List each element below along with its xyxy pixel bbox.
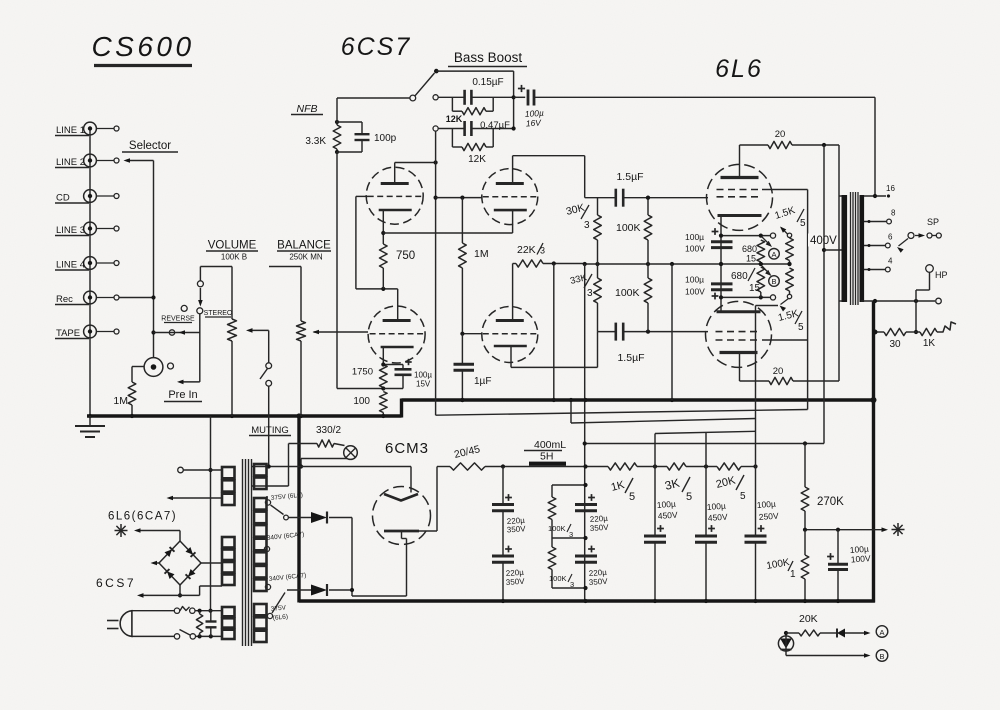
svg-text:HP: HP	[935, 270, 948, 280]
wire secondary bottom	[861, 298, 941, 304]
svg-text:B: B	[879, 652, 884, 661]
svg-text:400mL: 400mL	[534, 439, 566, 451]
svg-text:450V: 450V	[707, 512, 728, 523]
svg-text:15V: 15V	[416, 380, 431, 389]
potentiometer BALANCE 250K	[297, 267, 306, 417]
wire 6CM3 cathode to rail	[419, 467, 437, 532]
svg-text:STEREO: STEREO	[204, 310, 233, 317]
resistor 750 (V1a cathode)	[380, 244, 416, 289]
input jack LINE 3	[55, 222, 119, 236]
svg-text:100V: 100V	[685, 287, 705, 297]
wire cap to grid top	[623, 196, 708, 200]
power transformer right winding 3	[254, 604, 267, 642]
wire 6L6U plate lead	[739, 145, 741, 178]
node mid dots	[719, 262, 763, 266]
svg-text:100: 100	[353, 396, 370, 407]
wire screens vertical	[762, 190, 808, 410]
label 6CS7 heater	[96, 576, 136, 590]
wire bias row lower	[719, 295, 776, 300]
power transformer left winding 1	[222, 467, 235, 505]
svg-text:3: 3	[584, 220, 590, 231]
wire NFB tap vertical	[874, 97, 876, 196]
bus jog vertical	[400, 399, 403, 418]
wire tap down to bus	[552, 264, 556, 403]
diode circled (bias rectifier)	[778, 631, 793, 656]
label 400V	[808, 234, 841, 248]
wire volume box top	[200, 266, 232, 268]
resistor 1K/5	[608, 463, 667, 503]
resistor 20K bias	[786, 630, 834, 636]
svg-text:6: 6	[888, 233, 893, 242]
wire V2b plate lead	[512, 264, 514, 321]
node top coupling line	[585, 197, 616, 199]
wire feed line screens	[436, 410, 808, 416]
svg-text:250K MN: 250K MN	[289, 253, 323, 262]
star output node	[892, 523, 905, 536]
resistor 270K	[801, 444, 844, 530]
wire cathode coupling line	[383, 232, 512, 234]
svg-text:A: A	[771, 250, 776, 259]
svg-text:100K: 100K	[616, 222, 641, 234]
svg-text:100µ: 100µ	[656, 499, 676, 510]
svg-text:4: 4	[888, 257, 893, 266]
output transformer primary winding	[842, 195, 848, 302]
resistor 1750 (V1b cathode)	[352, 365, 387, 391]
wire mid to bus x672	[671, 264, 673, 400]
capacitor 0.15uF box	[438, 77, 513, 111]
svg-text:100µ: 100µ	[685, 232, 704, 242]
wire bias line B	[786, 653, 871, 658]
tap 340V upper	[264, 531, 304, 552]
wire jack to 1M	[132, 367, 144, 383]
switch SP	[897, 233, 941, 253]
wire center tap	[824, 249, 842, 251]
resistor 20K/5	[715, 463, 758, 502]
wiper arrow upper	[762, 237, 772, 247]
capacitor 0.47uF box	[438, 120, 515, 147]
wire B+ feed vertical	[584, 264, 586, 601]
svg-text:250V: 250V	[758, 511, 779, 522]
svg-text:6L6: 6L6	[715, 55, 763, 83]
wire bias pot stub	[756, 305, 779, 307]
svg-text:LINE 3: LINE 3	[56, 225, 85, 236]
wire mains bottom	[132, 634, 180, 639]
svg-text:1750: 1750	[352, 367, 373, 378]
wire V1b cathode lead	[382, 347, 384, 365]
wire V2a cathode lead	[512, 210, 514, 233]
potentiometer VOLUME 100K	[228, 267, 237, 417]
resistor 100K upper	[616, 196, 652, 264]
svg-text:SP: SP	[927, 217, 939, 227]
ground bus right (thick)	[402, 398, 875, 401]
svg-text:1: 1	[790, 569, 796, 580]
capacitor 100uF 450V D	[695, 433, 728, 602]
svg-text:22K: 22K	[517, 244, 536, 256]
contact heater top	[178, 467, 222, 473]
node tape/selector junction	[151, 330, 155, 334]
label Bass Boost	[448, 50, 527, 67]
wire bridge bottom	[178, 585, 182, 598]
wire B+ rail	[501, 464, 608, 468]
wire mains feed vertical	[208, 416, 212, 613]
svg-text:5: 5	[740, 491, 746, 502]
wire V1a plate lead	[395, 160, 438, 183]
diode rectifier lower	[287, 584, 352, 596]
svg-text:NFB: NFB	[297, 103, 318, 115]
resistor 1M (phono load)	[113, 382, 135, 416]
tube V2b 6CS7 triode	[482, 307, 538, 363]
output transformer secondary winding	[860, 195, 865, 302]
terminal B	[876, 650, 888, 662]
bridge rectifier	[159, 541, 201, 585]
input jack TAPE	[55, 325, 119, 339]
svg-text:5: 5	[686, 491, 692, 503]
mains plug	[107, 611, 132, 637]
svg-text:680: 680	[742, 244, 757, 254]
svg-text:100V: 100V	[685, 244, 705, 254]
capacitor 100uF 450V C	[644, 434, 678, 602]
wire V1a grid return	[356, 196, 398, 291]
resistor 20 (upper)	[740, 129, 840, 149]
bus vertical left (thick)	[296, 413, 301, 602]
resistor 680/15 upper	[742, 240, 765, 264]
power transformer core	[243, 459, 252, 646]
svg-text:5: 5	[800, 218, 806, 229]
ground symbol	[75, 416, 105, 437]
wire 400V vertical	[822, 145, 826, 444]
node bus crossings	[460, 398, 674, 402]
resistor 30 (to bus)	[873, 328, 921, 350]
wire star arrow	[134, 528, 180, 541]
wire V2b grid line	[460, 332, 482, 336]
svg-text:BALANCE: BALANCE	[277, 240, 331, 252]
label NFB	[291, 103, 323, 115]
resistor 12K upper	[446, 108, 493, 124]
capacitor 100p	[337, 122, 397, 152]
label 20K	[799, 613, 818, 625]
capacitor 220uF 350V B2	[575, 546, 608, 587]
switch speaker mute	[260, 363, 272, 467]
capacitor 100uF 100V upper	[685, 228, 733, 253]
resistor 30K/3	[565, 198, 601, 264]
wire V2b cathode lead	[510, 346, 512, 367]
wire feed line4	[655, 431, 756, 433]
wire V1a cathode lead	[381, 210, 385, 244]
test point A upper	[769, 249, 780, 260]
capacitor 220uF 350V A2	[492, 512, 525, 601]
svg-text:3: 3	[540, 246, 545, 256]
fuse	[180, 607, 195, 614]
wire input jack common vertical	[89, 129, 91, 417]
tap 16 ohm	[864, 184, 895, 198]
svg-text:LINE 4: LINE 4	[56, 260, 85, 271]
contact bass boost lower	[433, 126, 438, 131]
wire grid node V2a	[436, 196, 482, 200]
wire feed line B	[571, 419, 756, 424]
wire 6L6L plate lead	[739, 353, 741, 382]
capacitor 100uF 250V E	[745, 306, 780, 602]
power transformer right winding 1	[254, 464, 267, 489]
tap 6 ohm	[864, 233, 893, 248]
svg-text:1.5µF: 1.5µF	[616, 171, 643, 183]
tap 375V upper	[265, 492, 303, 505]
wire heater 6L6 arrow	[167, 496, 223, 501]
svg-text:6CM3: 6CM3	[385, 440, 429, 457]
bus vertical right (thick)	[872, 301, 875, 603]
svg-text:0.47µF: 0.47µF	[480, 120, 510, 131]
svg-text:5H: 5H	[540, 451, 553, 463]
tube V2a 6CS7 triode	[482, 169, 538, 225]
resistor 1K (HP pad)	[920, 328, 937, 349]
capacitor 220uF 350V A1	[492, 467, 526, 535]
wire balance wiper to grid	[313, 330, 369, 335]
wire bass boost top line	[436, 71, 513, 128]
svg-text:Rec: Rec	[56, 294, 73, 305]
input jack Rec	[55, 291, 119, 305]
power transformer right winding 2	[254, 498, 267, 591]
resistor 20/45	[437, 443, 503, 470]
capacitor 100uF 16V	[514, 85, 875, 129]
wire cap to grid bottom	[623, 330, 708, 334]
wire HT tap line	[251, 464, 411, 468]
svg-text:100K: 100K	[548, 524, 566, 533]
power transformer left winding 2	[222, 537, 235, 585]
wire HV tap line2	[251, 485, 289, 487]
svg-text:3: 3	[587, 288, 593, 299]
svg-text:0.15µF: 0.15µF	[472, 77, 503, 88]
svg-text:350V: 350V	[507, 524, 527, 534]
label 6L6 (output tubes)	[715, 55, 763, 83]
jack HP	[926, 265, 948, 280]
label MUTING	[249, 425, 291, 436]
wire primary vertical	[839, 145, 842, 381]
wire bass boost feed vertical	[434, 131, 438, 415]
svg-text:350V: 350V	[589, 577, 609, 587]
svg-text:100µ: 100µ	[756, 499, 776, 510]
load squiggle	[937, 322, 956, 332]
node bass boost output	[511, 95, 515, 99]
resistor 3K/5	[663, 463, 717, 503]
title CS600	[91, 31, 194, 66]
ground bus bottom (thick)	[299, 599, 875, 602]
wire bleeder stubs	[552, 483, 588, 590]
svg-text:6L6(6CA7): 6L6(6CA7)	[108, 511, 177, 523]
wire mains bottom right	[196, 634, 223, 638]
terminal A	[876, 626, 888, 638]
wire mains top right	[195, 609, 222, 613]
svg-text:1µF: 1µF	[474, 376, 491, 387]
svg-text:450V: 450V	[657, 510, 678, 521]
tube 6CM3 damper	[373, 487, 431, 545]
svg-text:30: 30	[889, 339, 901, 350]
label 100K B	[221, 253, 247, 262]
svg-text:270K: 270K	[817, 496, 844, 508]
resistor 12K lower	[452, 143, 493, 165]
wire rectifier output	[350, 518, 354, 597]
node bottom bus dots	[501, 599, 840, 603]
svg-text:TAPE: TAPE	[56, 328, 80, 339]
svg-text:100µ: 100µ	[685, 275, 704, 285]
svg-text:100K B: 100K B	[221, 253, 247, 262]
resistor 680/15 lower	[731, 267, 765, 297]
label Selector	[122, 140, 178, 152]
wire mains top	[132, 608, 180, 613]
capacitor 100uF 100V lower	[685, 275, 733, 300]
node 22K tap	[552, 261, 556, 265]
input jack LINE 1	[55, 122, 119, 136]
label 6CS7 (first stage tubes)	[341, 33, 412, 61]
wire HP down	[914, 272, 930, 334]
contact bass boost upper	[433, 95, 438, 100]
resistor 100 (V1b cathode lower)	[353, 392, 387, 419]
label VOLUME	[206, 240, 258, 252]
node bottom coupling line	[598, 331, 616, 333]
capacitor 1uF	[454, 334, 492, 402]
switch bass boost	[410, 69, 439, 101]
wire 6L6U cathode lead	[720, 217, 722, 312]
diode bias	[834, 629, 871, 638]
power transformer left winding 3	[222, 607, 235, 639]
label Pre In	[164, 389, 202, 402]
tap 8 ohm	[864, 209, 896, 224]
wire volume wiper	[246, 328, 269, 333]
capacitor 100uF 100V	[827, 530, 871, 601]
capacitor snubber	[206, 611, 217, 637]
svg-text:100V: 100V	[850, 553, 871, 564]
wire pre-in arrow	[177, 380, 200, 385]
svg-text:3.3K: 3.3K	[305, 136, 326, 147]
resistor 100K/3 upper (bleeder)	[548, 485, 573, 539]
wire heater 6CS7 arrow	[137, 586, 222, 598]
label SP	[927, 217, 939, 227]
tube V1b 6CS7 triode	[368, 306, 425, 363]
label 6CM3	[385, 440, 429, 457]
wire V2a plate lead	[513, 156, 585, 198]
switch mains	[180, 630, 196, 640]
svg-text:350V: 350V	[506, 577, 526, 587]
wire selector vertical	[153, 161, 155, 358]
choke 400mL 5H	[524, 439, 566, 466]
input jack CD	[55, 190, 119, 204]
svg-text:12K: 12K	[446, 114, 463, 124]
input jack LINE 4	[55, 257, 119, 271]
svg-text:1.5µF: 1.5µF	[617, 352, 644, 364]
tap 4 ohm	[864, 257, 893, 272]
resistor 3.3K	[305, 98, 340, 154]
tube 6L6 lower	[706, 301, 772, 367]
wire feed line5 bias	[583, 441, 824, 445]
wire bridge left arrow	[151, 561, 160, 566]
tube 6L6 upper	[707, 164, 773, 230]
wire 6CM3 cathode to rectifier	[352, 531, 407, 596]
label 6L6(6CA7)	[108, 511, 177, 523]
wiper arrow lower	[762, 266, 772, 276]
svg-text:1M: 1M	[474, 248, 489, 260]
wire balance box top	[269, 266, 301, 268]
wire bridge right	[201, 562, 222, 564]
resistor 100K/3 lower (bleeder)	[548, 538, 574, 589]
star heater left	[115, 524, 128, 537]
label BALANCE	[277, 240, 331, 252]
svg-text:8: 8	[891, 209, 896, 218]
switch HV upper	[271, 505, 289, 520]
diode rectifier upper	[288, 512, 352, 524]
svg-text:100µ: 100µ	[414, 371, 432, 380]
svg-text:REVERSE: REVERSE	[161, 316, 195, 323]
resistor 330/2	[289, 425, 345, 447]
svg-text:5: 5	[798, 322, 804, 333]
resistor 1M (V2b grid)	[459, 198, 489, 334]
potentiometer 1.5K/5 upper	[774, 205, 806, 264]
svg-text:1M: 1M	[113, 395, 128, 407]
wire 6CM3 plate feed	[410, 467, 412, 491]
svg-text:VOLUME: VOLUME	[208, 240, 257, 252]
svg-text:6CS7: 6CS7	[96, 576, 136, 590]
svg-text:5: 5	[629, 491, 635, 503]
wire feed riser x571	[569, 398, 573, 423]
svg-text:15: 15	[749, 283, 761, 294]
wire V2b cathode to node	[511, 332, 598, 368]
svg-text:100K: 100K	[615, 287, 640, 299]
wire muting vertical	[288, 444, 290, 487]
svg-text:15: 15	[746, 254, 756, 264]
svg-text:A: A	[879, 628, 884, 637]
test point B lower	[769, 276, 780, 287]
wire NFB horizontal	[337, 97, 410, 99]
svg-text:Selector: Selector	[129, 140, 171, 152]
wire output node	[803, 527, 888, 532]
resistor snubber	[196, 611, 202, 637]
resistor 20 (lower)	[740, 366, 840, 385]
resistor 100K/1	[766, 530, 809, 601]
wire B+ mid line	[583, 262, 792, 266]
svg-text:6CS7: 6CS7	[341, 33, 412, 61]
switch HV lower	[272, 593, 285, 614]
label STEREO	[204, 310, 233, 317]
tap 375V lower	[267, 604, 288, 622]
resistor 100K lower	[615, 264, 652, 332]
wire tape switch line	[154, 330, 200, 335]
svg-text:20K: 20K	[799, 613, 818, 625]
svg-text:12K: 12K	[468, 154, 486, 165]
svg-text:750: 750	[396, 250, 415, 262]
ground bus left (thick)	[87, 414, 402, 417]
capacitor 100uF 15V (cathode bypass)	[381, 359, 432, 389]
tap 340V lower	[265, 572, 306, 590]
capacitor 220uF 350V B1	[575, 494, 609, 533]
svg-text:B: B	[771, 277, 776, 286]
wire stereo contact down	[199, 314, 201, 382]
svg-text:16V: 16V	[525, 117, 542, 128]
svg-text:CD: CD	[56, 193, 70, 204]
svg-text:16: 16	[886, 184, 895, 193]
input jack LINE 2	[55, 154, 119, 168]
svg-text:CS600: CS600	[91, 31, 194, 62]
svg-text:680: 680	[731, 271, 748, 282]
svg-text:1K: 1K	[923, 338, 936, 349]
svg-text:100p: 100p	[374, 133, 397, 144]
wire selector from LINE2	[124, 158, 154, 163]
resistor 33K/3	[569, 264, 601, 332]
lamp muting	[344, 446, 358, 460]
wire lamp return	[299, 459, 347, 469]
svg-text:LINE 2: LINE 2	[56, 157, 85, 168]
potentiometer 1.5K/5 lower	[777, 262, 804, 333]
svg-text:330/2: 330/2	[316, 425, 341, 436]
label 250K MN	[289, 253, 323, 262]
label REVERSE	[161, 316, 195, 323]
wire wiper feed down	[268, 330, 270, 362]
